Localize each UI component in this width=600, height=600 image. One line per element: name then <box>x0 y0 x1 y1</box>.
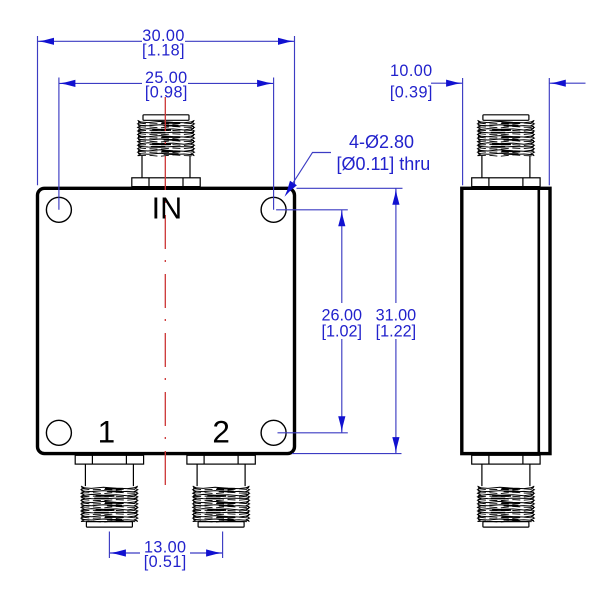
side view body outline <box>462 188 550 453</box>
dimension 30.00 [1.18] overall width <box>37 36 39 185</box>
svg-text:10.00: 10.00 <box>390 62 433 80</box>
svg-text:2: 2 <box>212 414 230 450</box>
svg-text:[0.39]: [0.39] <box>390 83 433 101</box>
mounting hole top-right <box>261 197 286 222</box>
mounting hole top-left <box>46 197 71 222</box>
dimension 10.00 [0.39] side view width <box>462 78 464 185</box>
svg-text:[1.02]: [1.02] <box>322 323 363 341</box>
red centerline (front view vertical axis) <box>164 97 166 494</box>
svg-text:[Ø0.11] thru: [Ø0.11] thru <box>337 154 431 174</box>
svg-text:[1.22]: [1.22] <box>376 323 417 341</box>
svg-text:4-Ø2.80: 4-Ø2.80 <box>349 132 414 152</box>
svg-text:[0.98]: [0.98] <box>145 84 188 102</box>
side view cover plate line <box>537 187 540 456</box>
SMA connector side-view bottom <box>472 455 540 527</box>
front view body outline <box>38 188 295 453</box>
mounting hole bottom-right <box>261 420 286 445</box>
SMA connector port 1 (front bottom-left) <box>75 455 143 527</box>
svg-text:[1.18]: [1.18] <box>142 42 185 60</box>
SMA connector port 2 (front bottom-right) <box>187 455 255 527</box>
hole callout 4-dia 2.80 thru leader <box>288 153 332 192</box>
svg-text:[0.51]: [0.51] <box>144 553 187 571</box>
dimension 26.00 [1.02] hole spacing vertical <box>276 209 348 211</box>
dimension 13.00 [0.51] output port spacing <box>108 532 110 559</box>
dimension 31.00 [1.22] overall height <box>297 187 403 189</box>
svg-text:IN: IN <box>152 192 183 226</box>
mounting hole bottom-left <box>46 420 71 445</box>
SMA connector IN (front top) <box>132 115 200 187</box>
svg-text:1: 1 <box>98 414 116 450</box>
dimension 25.00 [0.98] hole spacing horizontal <box>58 78 60 210</box>
SMA connector side-view top <box>472 115 540 187</box>
